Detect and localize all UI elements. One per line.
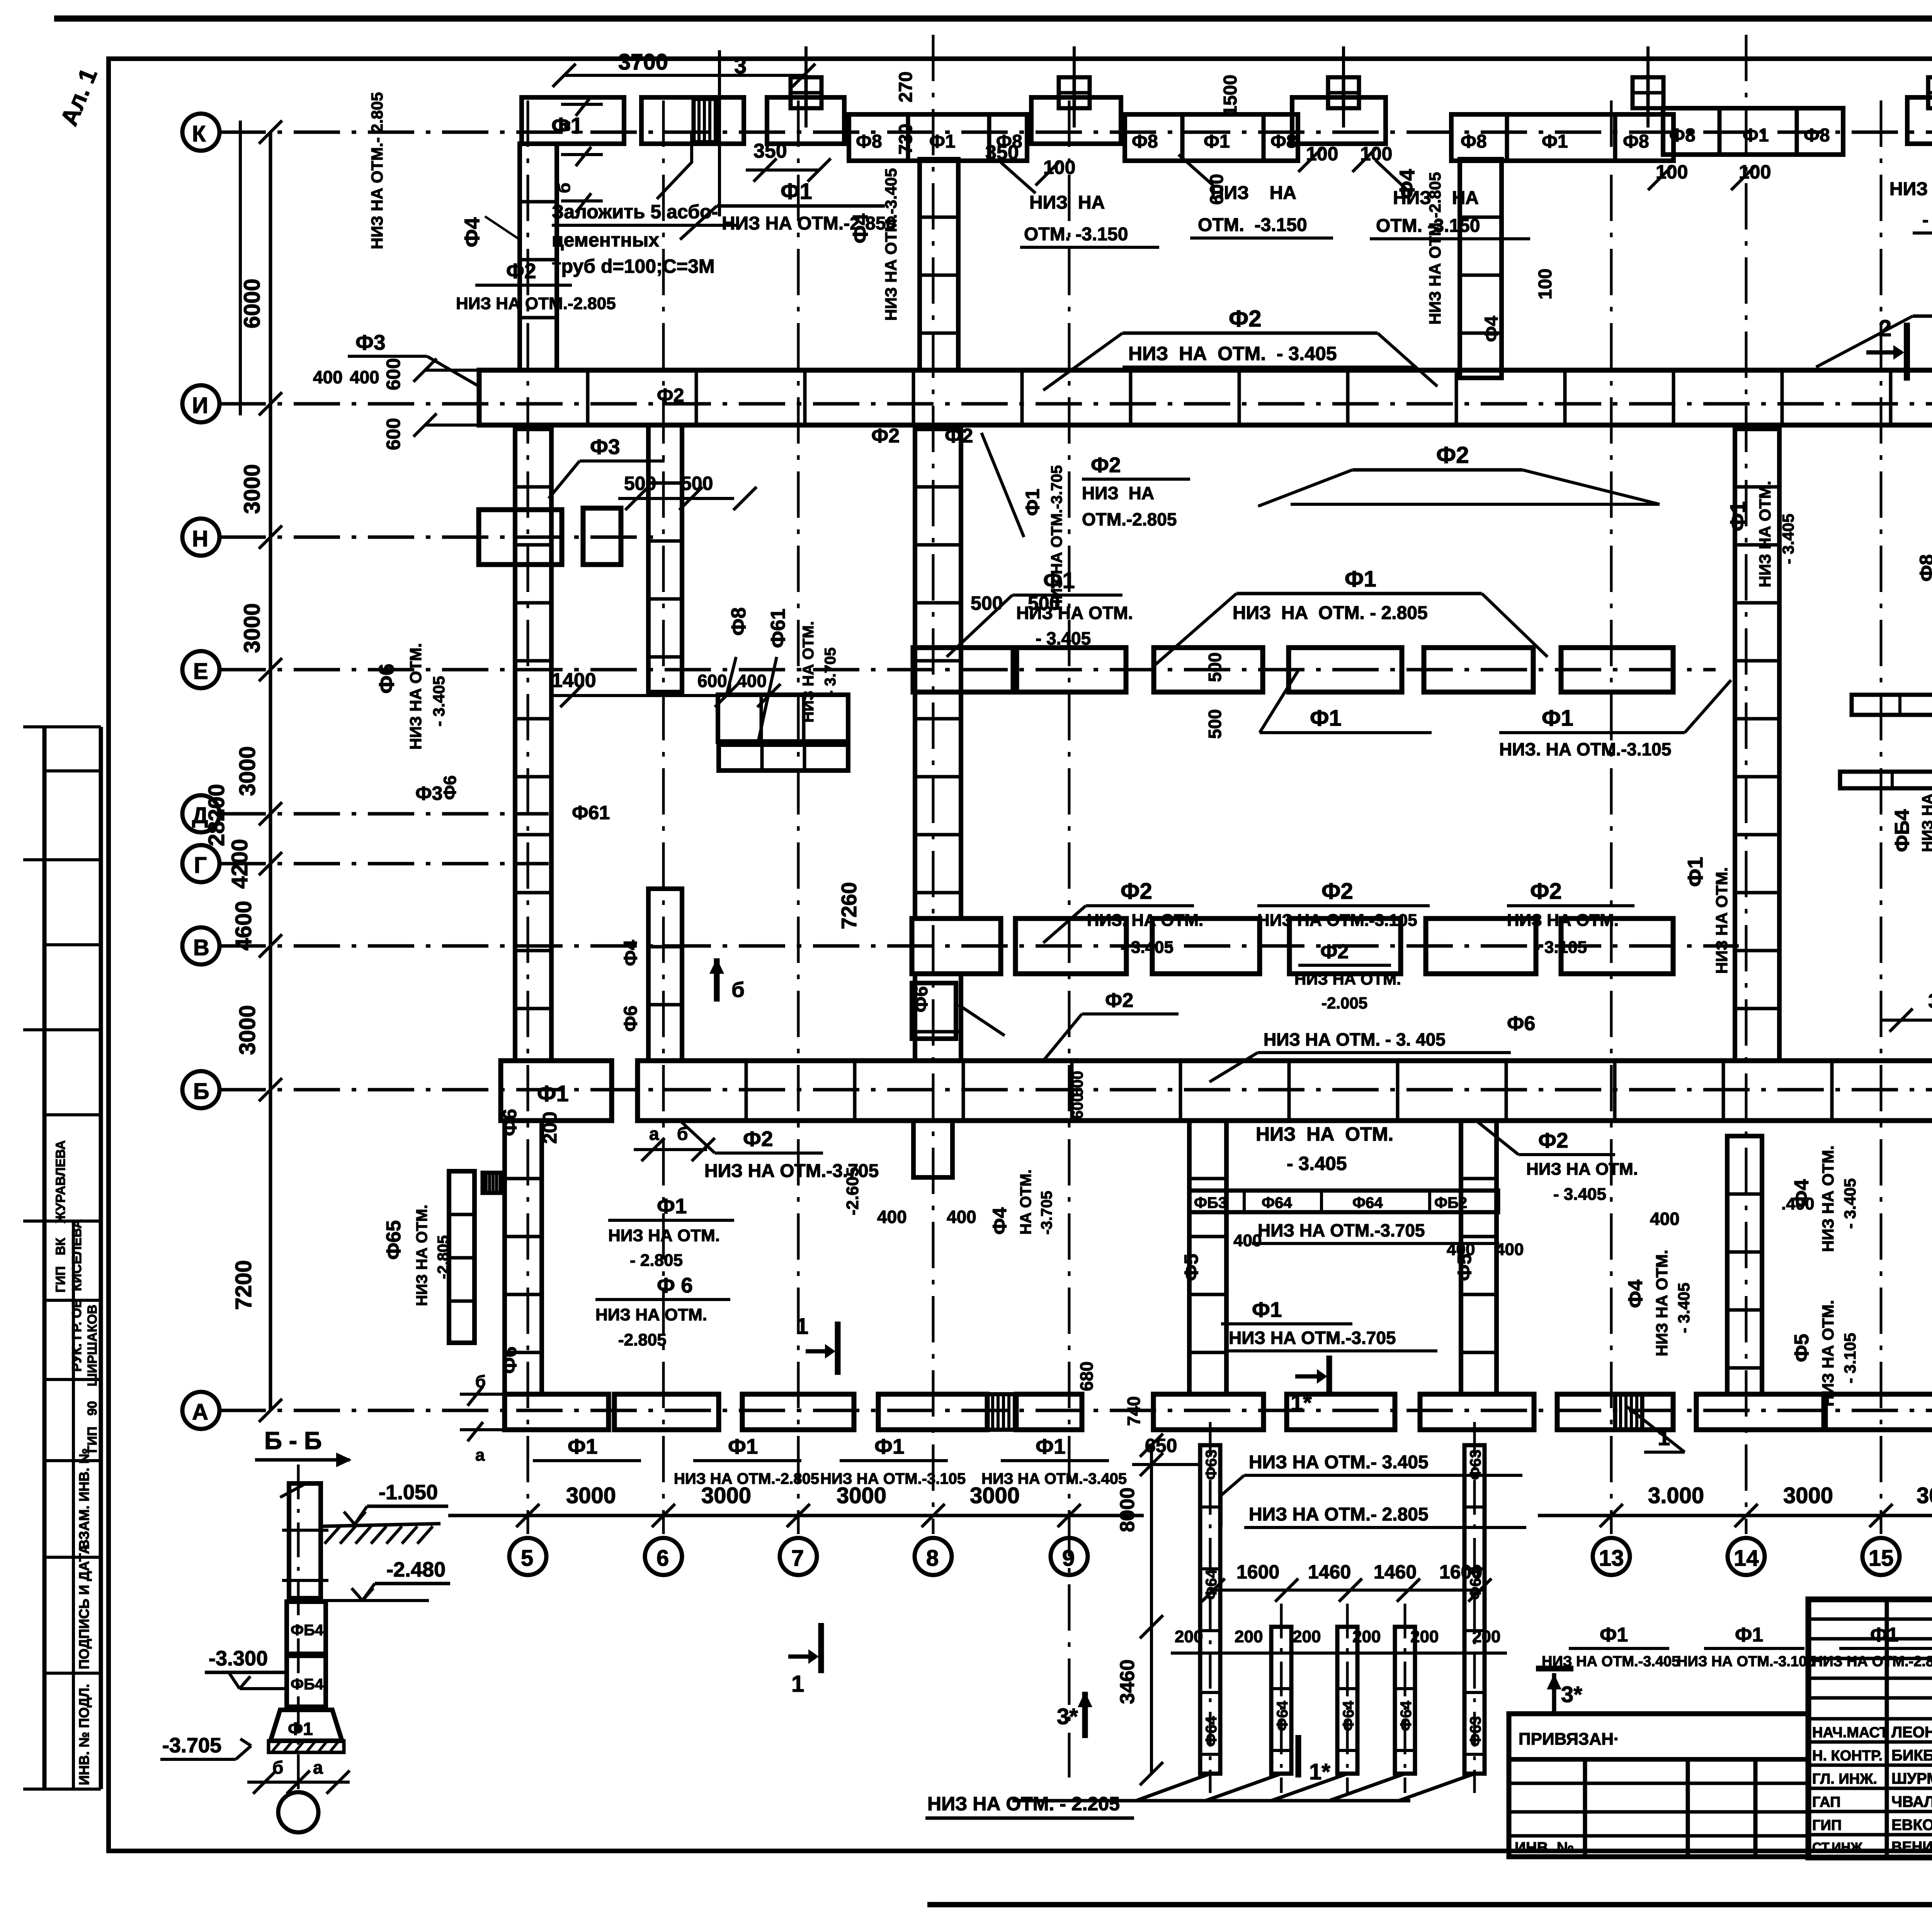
А-row footing Ф1	[1016, 1394, 1082, 1430]
bottom dimension line left group	[448, 1514, 1144, 1517]
svg-text:Ф6: Ф6	[911, 986, 932, 1012]
svg-text:НИЗ НА ОТМ.: НИЗ НА ОТМ.	[1756, 481, 1774, 587]
svg-text:Ф64: Ф64	[1262, 1194, 1292, 1211]
svg-text:270: 270	[896, 71, 916, 102]
svg-text:б: б	[555, 183, 574, 193]
left vertical dimension line	[269, 132, 272, 1410]
svg-text:НИЗ НА: НИЗ НА	[1082, 483, 1154, 503]
wall strip col8 below Б	[913, 1121, 952, 1177]
svg-text:ГИП ВК ЖУРАВЛЕВА: ГИП ВК ЖУРАВЛЕВА	[53, 1140, 68, 1293]
svg-text:ОТМ. -3.150: ОТМ. -3.150	[1198, 215, 1307, 235]
stamp bottom line	[23, 1788, 101, 1791]
wall strip col6 И-Е	[648, 425, 682, 692]
wall strip К-И right	[1460, 159, 1502, 378]
leader	[1378, 333, 1437, 386]
svg-text:- 3.405: - 3.405	[430, 676, 448, 726]
svg-text:Б: Б	[193, 1079, 209, 1104]
svg-text:ГЛ. ИНЖ.: ГЛ. ИНЖ.	[1812, 1771, 1877, 1787]
В-row footing Ф2	[912, 919, 1001, 974]
svg-text:Ф1: Ф1	[1726, 501, 1750, 531]
left stamp column inner line	[99, 727, 103, 1789]
Ф6 block mid	[912, 983, 956, 1039]
leader	[1155, 594, 1236, 665]
leader	[1043, 1014, 1082, 1061]
axis circle 8	[915, 1538, 952, 1575]
Б axis wall left footing Ф1	[501, 1061, 612, 1121]
pier Ф63-Ф64 column 3	[1337, 1627, 1357, 1774]
svg-text:Ф6: Ф6	[440, 776, 460, 800]
svg-text:Н: Н	[192, 526, 208, 551]
svg-text:- 3.405: - 3.405	[1121, 938, 1173, 957]
bottom dimension line right group	[1538, 1514, 1932, 1517]
svg-text:3000: 3000	[1917, 1483, 1932, 1508]
А-row footing Ф1	[742, 1394, 854, 1430]
stamp tick	[44, 769, 101, 772]
svg-text:Ф8: Ф8	[1461, 131, 1487, 152]
svg-text:Ф8: Ф8	[1132, 131, 1158, 152]
svg-text:-3.300: -3.300	[209, 1647, 268, 1670]
svg-text:Ф64: Ф64	[1340, 1701, 1357, 1731]
svg-text:600: 600	[1069, 1093, 1086, 1119]
axis circle 9	[1051, 1538, 1088, 1575]
stamp tick	[44, 1113, 101, 1116]
svg-text:100: 100	[1535, 269, 1556, 299]
svg-text:- 3.150: - 3.150	[1922, 210, 1932, 230]
axis circle И	[182, 385, 219, 422]
ПРИВЯЗАН grid verticals	[1585, 1759, 1755, 1857]
svg-text:-2.480: -2.480	[386, 1558, 446, 1581]
wall strip col5 К-И	[520, 144, 557, 370]
svg-text:Ф2: Ф2	[1436, 442, 1469, 468]
svg-text:Ф2: Ф2	[743, 1127, 773, 1151]
svg-text:НИЗ НА ОТМ.- 2.805: НИЗ НА ОТМ.- 2.805	[368, 92, 386, 249]
svg-text:Е: Е	[193, 659, 208, 684]
svg-text:Ф64: Ф64	[1467, 1569, 1484, 1600]
svg-text:Ф6: Ф6	[1507, 1012, 1535, 1035]
svg-text:Ф1: Ф1	[1743, 125, 1769, 146]
svg-text:6000: 6000	[240, 279, 265, 328]
svg-text:Ф2: Ф2	[945, 425, 973, 447]
Е-row footing Ф1	[913, 648, 1013, 692]
svg-text:НИЗ НА ОТМ.: НИЗ НА ОТМ.	[1507, 911, 1619, 930]
svg-text:а: а	[649, 1124, 659, 1144]
svg-text:- 3.105: - 3.105	[1534, 938, 1587, 957]
stamp tick	[23, 1028, 101, 1031]
ПРИВЯЗАН header row	[1509, 1757, 1808, 1762]
axis circle Д	[182, 795, 219, 832]
svg-text:ВЕНИНА: ВЕНИНА	[1891, 1839, 1932, 1855]
svg-text:500: 500	[1205, 709, 1225, 739]
svg-text:Ф64: Ф64	[1398, 1701, 1415, 1731]
pier Ф63-Ф64 column 5	[1464, 1445, 1485, 1774]
svg-text:ПОДПИСЬ И ДАТА: ПОДПИСЬ И ДАТА	[76, 1544, 92, 1669]
leader	[1627, 1407, 1685, 1452]
svg-text:НИЗ НА ОТМ.-3.705: НИЗ НА ОТМ.-3.705	[1258, 1220, 1425, 1240]
svg-text:3400: 3400	[1928, 990, 1932, 1012]
svg-text:Ф1: Ф1	[1600, 1624, 1628, 1646]
К-row footing	[1031, 97, 1121, 144]
svg-text:Ф1: Ф1	[1022, 489, 1043, 516]
svg-text:СТ.ИНЖ.: СТ.ИНЖ.	[1812, 1840, 1866, 1855]
svg-text:Ф8: Ф8	[1623, 131, 1649, 152]
svg-text:ИНВ. №: ИНВ. №	[1515, 1839, 1574, 1856]
svg-text:Ф3: Ф3	[355, 330, 386, 354]
svg-text:НИЗ НА ОТМ.-3.705: НИЗ НА ОТМ.-3.705	[1048, 465, 1065, 611]
svg-text:НИЗ НА ОТМ.- 2.805: НИЗ НА ОТМ.- 2.805	[1249, 1504, 1429, 1525]
svg-text:- 3.105: - 3.105	[1841, 1333, 1859, 1383]
svg-text:Ф1: Ф1	[728, 1434, 758, 1458]
svg-text:НИЗ. НА ОТМ.-3.105: НИЗ. НА ОТМ.-3.105	[1499, 739, 1671, 759]
svg-text:8000: 8000	[1116, 1487, 1139, 1532]
stamp cell line	[44, 1556, 101, 1559]
svg-text:а: а	[555, 122, 574, 131]
svg-text:НИЗ НА ОТМ.: НИЗ НА ОТМ.	[1713, 867, 1731, 974]
ПРИВЯЗАН grid horizontals	[1509, 1783, 1808, 1836]
left stamp column outer line	[43, 727, 47, 1789]
stamp tick	[23, 1220, 101, 1223]
leader	[1476, 1121, 1519, 1155]
stamp name row	[44, 1299, 101, 1302]
svg-text:НИЗ НА ОТМ.-3.405: НИЗ НА ОТМ.-3.405	[882, 168, 900, 321]
svg-text:3000: 3000	[240, 603, 265, 653]
svg-text:В: В	[193, 935, 209, 960]
svg-text:ОТМ.-2.805: ОТМ.-2.805	[1082, 509, 1177, 529]
svg-text:3: 3	[734, 53, 747, 78]
svg-text:Ф1: Ф1	[1542, 706, 1573, 731]
svg-text:НИЗ НА ОТМ.-2.805: НИЗ НА ОТМ.-2.805	[456, 294, 616, 313]
svg-text:а: а	[475, 1446, 485, 1465]
svg-text:НИЗ НА: НИЗ НА	[1029, 192, 1105, 213]
ФБ block row right upper	[1852, 695, 1932, 715]
svg-text:Ф1: Ф1	[1683, 857, 1707, 887]
svg-text:Ф63: Ф63	[1203, 1449, 1220, 1480]
svg-text:740: 740	[1124, 1396, 1144, 1426]
svg-text:Ф1: Ф1	[568, 1434, 598, 1458]
svg-text:-2.805: -2.805	[618, 1330, 667, 1349]
dimension 3700	[564, 74, 804, 77]
svg-text:ФБ2: ФБ2	[1434, 1194, 1467, 1211]
axis circle 6	[645, 1538, 682, 1575]
axis circle 13	[1593, 1538, 1630, 1575]
svg-text:ИНВ. № ПОДЛ.: ИНВ. № ПОДЛ.	[76, 1684, 92, 1785]
svg-text:Ф64: Ф64	[1274, 1701, 1291, 1731]
svg-text:-2.005: -2.005	[1321, 994, 1367, 1012]
svg-text:Ф1: Ф1	[1345, 566, 1376, 592]
svg-text:3*: 3*	[1057, 1704, 1078, 1729]
svg-text:Ф4: Ф4	[848, 213, 872, 243]
sheet outer bottom border	[927, 1902, 1932, 1907]
section axis dash line	[297, 1465, 300, 1793]
svg-text:7260: 7260	[837, 882, 861, 929]
wall strip col8 И-В	[915, 429, 961, 919]
svg-text:НИЗ НА ОТМ.-3.105: НИЗ НА ОТМ.-3.105	[1257, 911, 1417, 930]
svg-text:400: 400	[1233, 1231, 1262, 1250]
sheet outer top border	[54, 15, 1932, 22]
svg-text:Ф4: Ф4	[989, 1207, 1010, 1235]
svg-text:ШУРМУХИНА: ШУРМУХИНА	[1891, 1770, 1932, 1787]
svg-text:НИЗ НА ОТМ.: НИЗ НА ОТМ.	[1016, 603, 1133, 623]
svg-text:3000: 3000	[566, 1483, 616, 1508]
svg-text:Ф5: Ф5	[1454, 1254, 1475, 1281]
svg-text:НИЗ НА ОТМ.-3.105: НИЗ НА ОТМ.-3.105	[1677, 1653, 1815, 1670]
svg-text:5: 5	[521, 1546, 533, 1571]
Ф61 block row	[718, 695, 848, 742]
leader	[1522, 470, 1660, 504]
svg-text:4200: 4200	[227, 839, 252, 889]
К-row footing cluster Ф8-Ф1-Ф8	[849, 114, 1027, 161]
svg-text:ЧВАЛУН: ЧВАЛУН	[1891, 1793, 1932, 1810]
svg-text:3700: 3700	[618, 49, 668, 75]
svg-text:Ф1: Ф1	[537, 1081, 569, 1106]
left stamp top tick	[23, 725, 101, 728]
svg-text:б: б	[731, 978, 745, 1002]
svg-text:Ф8: Ф8	[1270, 131, 1297, 152]
title block upper thin rows	[1808, 1619, 1932, 1719]
К-row footing Ф1	[522, 97, 624, 144]
axis circle 15	[1862, 1538, 1900, 1575]
stamp cell line	[44, 1672, 101, 1675]
В-row footing Ф2	[1289, 919, 1401, 974]
svg-text:НАЧ.МАСТ: НАЧ.МАСТ	[1812, 1725, 1888, 1741]
svg-text:-1.050: -1.050	[379, 1481, 438, 1504]
svg-text:И: И	[192, 393, 208, 418]
svg-text:Ф3: Ф3	[590, 435, 620, 459]
svg-text:7200: 7200	[231, 1260, 256, 1310]
svg-text:1500: 1500	[1220, 75, 1241, 116]
stamp name row	[44, 1378, 101, 1381]
svg-text:НА ОТМ.: НА ОТМ.	[1017, 1169, 1034, 1235]
svg-text:Ф63: Ф63	[1467, 1716, 1484, 1747]
svg-text:ГИП: ГИП	[1812, 1817, 1842, 1834]
svg-text:НИЗ НА ОТМ. - 3. 405: НИЗ НА ОТМ. - 3. 405	[1264, 1029, 1446, 1050]
svg-text:Ф2: Ф2	[1229, 306, 1262, 332]
svg-text:Ф8: Ф8	[1804, 125, 1830, 146]
svg-text:труб d=100;С=3М: труб d=100;С=3М	[552, 255, 715, 277]
svg-text:-2.805: -2.805	[435, 1235, 452, 1279]
svg-text:Ф6: Ф6	[621, 1005, 641, 1032]
svg-text:Ф65: Ф65	[383, 1220, 405, 1260]
ground level line	[319, 1524, 440, 1526]
leader	[981, 433, 1024, 537]
section wall column	[289, 1483, 321, 1598]
wall strip col5 И-Б	[515, 429, 551, 1061]
svg-text:НИЗ НА ОТМ.-2.805: НИЗ НА ОТМ.-2.805	[1812, 1653, 1932, 1670]
svg-text:а: а	[313, 1757, 323, 1778]
leader	[680, 206, 717, 240]
Ф61 block row lower	[719, 745, 848, 771]
svg-text:БИКБАЕВА: БИКБАЕВА	[1891, 1747, 1932, 1764]
А-row footing Ф1	[1420, 1394, 1534, 1430]
svg-text:3000: 3000	[235, 746, 260, 796]
wall strip col8 В-Б	[915, 974, 961, 1061]
svg-text:Ф2: Ф2	[1105, 989, 1133, 1012]
svg-text:Ф2: Ф2	[1321, 879, 1353, 904]
svg-text:Ф1: Ф1	[1870, 1624, 1898, 1646]
stamp tick	[44, 943, 101, 946]
leader	[726, 657, 736, 696]
svg-text:НИЗ НА ОТМ.: НИЗ НА ОТМ.	[800, 621, 817, 723]
svg-text:РУК. ГР. ОВ КИСЕЛЕВА: РУК. ГР. ОВ КИСЕЛЕВА	[70, 1219, 84, 1372]
svg-text:Ф8: Ф8	[1669, 125, 1696, 146]
svg-text:200: 200	[1175, 1627, 1203, 1646]
svg-text:600: 600	[383, 358, 404, 390]
svg-text:ФБ4: ФБ4	[1891, 809, 1913, 852]
svg-text:- 3.405: - 3.405	[1553, 1185, 1606, 1204]
К-row footing	[1292, 97, 1386, 144]
svg-text:ЕВКО: ЕВКО	[1891, 1817, 1932, 1834]
leader	[947, 595, 1012, 657]
svg-text:цементных: цементных	[552, 229, 659, 251]
svg-text:200: 200	[1235, 1627, 1263, 1646]
svg-text:НИЗ НА ОТМ.: НИЗ НА ОТМ.	[413, 1204, 430, 1306]
footing base hatched strip	[269, 1741, 344, 1752]
hatched pier block col8	[987, 1394, 1016, 1430]
footing Ф1 trapezoid	[270, 1710, 342, 1741]
svg-text:НИЗ НА ОТМ.: НИЗ НА ОТМ.	[1819, 1300, 1837, 1407]
leader	[1221, 1475, 1244, 1526]
svg-text:1: 1	[791, 1671, 804, 1697]
svg-text:б: б	[677, 1124, 688, 1144]
Б axis strip foundation wall	[638, 1061, 1932, 1121]
section title arrow line	[255, 1458, 350, 1462]
wall strip col5 Б-А	[505, 1121, 542, 1394]
crossed square marker	[1328, 77, 1359, 108]
svg-text:13: 13	[1599, 1546, 1624, 1571]
wall strip col8 К-И	[920, 159, 958, 370]
pier leader lines	[1136, 1774, 1475, 1801]
svg-text:1600: 1600	[1236, 1561, 1279, 1583]
svg-text:Ф2: Ф2	[1530, 879, 1562, 904]
section empty axis circle	[278, 1792, 318, 1832]
axis circle В	[182, 927, 219, 964]
А-row footing Ф1	[1287, 1394, 1395, 1430]
title block signer rows	[1808, 1742, 1932, 1835]
svg-text:Ф4: Ф4	[621, 940, 641, 966]
svg-text:600: 600	[383, 418, 404, 450]
svg-text:1*: 1*	[1291, 1390, 1312, 1415]
leader	[1258, 470, 1352, 506]
svg-text:ФБ3: ФБ3	[1194, 1194, 1227, 1211]
svg-text:3000: 3000	[235, 1005, 260, 1055]
svg-text:Б - Б: Б - Б	[264, 1427, 322, 1454]
svg-text:НИЗ НА ОТМ.- 3.405: НИЗ НА ОТМ.- 3.405	[1249, 1452, 1429, 1473]
secondary vertical dim line К-И	[239, 121, 242, 415]
hatched block near Ф65	[483, 1173, 501, 1193]
leader	[757, 657, 777, 746]
wall strip col9 Б-А	[1189, 1121, 1226, 1394]
wall break marks	[280, 1484, 328, 1580]
svg-text:Ф6: Ф6	[374, 663, 398, 694]
svg-text:Ф2: Ф2	[871, 425, 900, 447]
svg-text:7: 7	[791, 1546, 804, 1571]
leader	[427, 356, 479, 386]
svg-text:Н. КОНТР.: Н. КОНТР.	[1812, 1748, 1883, 1764]
leader	[1043, 906, 1086, 943]
hatched insert block	[694, 99, 718, 142]
svg-text:6: 6	[656, 1546, 669, 1571]
svg-text:1400: 1400	[551, 669, 596, 692]
svg-text:НИЗ НА ОТМ.: НИЗ НА ОТМ.	[608, 1226, 720, 1245]
svg-text:Ф1: Ф1	[874, 1434, 905, 1458]
svg-text:НИЗ НА ОТМ. - 3.405: НИЗ НА ОТМ. - 3.405	[1128, 343, 1337, 364]
svg-text:Ф4: Ф4	[1395, 169, 1419, 199]
col5 leader	[485, 216, 520, 240]
svg-text:Ф5: Ф5	[1180, 1254, 1202, 1281]
svg-text:НИЗ НА ОТМ.: НИЗ НА ОТМ.	[1653, 1250, 1671, 1356]
svg-text:ВЗАМ. ИНВ. №: ВЗАМ. ИНВ. №	[76, 1448, 92, 1550]
svg-text:НИЗ НА ОТМ.-2.805: НИЗ НА ОТМ.-2.805	[674, 1470, 819, 1487]
svg-text:Ф1: Ф1	[1036, 1434, 1066, 1458]
svg-text:500: 500	[971, 592, 1003, 614]
svg-text:Ф2: Ф2	[1320, 941, 1349, 963]
leader	[549, 461, 580, 498]
svg-text:Ф64: Ф64	[1203, 1716, 1220, 1747]
svg-text:Ф2: Ф2	[1091, 453, 1121, 477]
svg-text:Ф8: Ф8	[856, 131, 882, 152]
А-row footing Ф1	[878, 1394, 987, 1430]
svg-text:НИЗ НА ОТМ.: НИЗ НА ОТМ.	[406, 643, 425, 750]
svg-text:Ф1: Ф1	[288, 1719, 313, 1739]
crossed square marker	[1059, 77, 1090, 108]
svg-text:.400: .400	[1781, 1194, 1815, 1213]
column axis lines dash-dot	[528, 35, 1932, 1778]
svg-text:Ф1: Ф1	[1310, 706, 1342, 731]
svg-text:Ф1: Ф1	[781, 179, 812, 204]
svg-text:3.000: 3.000	[1648, 1483, 1704, 1508]
axis circle А	[182, 1392, 219, 1429]
svg-text:НИЗ. НА ОТМ.: НИЗ. НА ОТМ.	[1087, 911, 1203, 930]
К-row footing cluster Ф8-Ф1 long	[1451, 114, 1673, 161]
svg-text:1460: 1460	[1308, 1561, 1351, 1583]
svg-text:ГИП 90 ШИРШАКОВ: ГИП 90 ШИРШАКОВ	[85, 1305, 100, 1453]
svg-text:ОТМ. -3.150: ОТМ. -3.150	[1024, 224, 1128, 245]
pier Ф63-Ф64 column 4	[1395, 1627, 1415, 1774]
svg-text:Ф8: Ф8	[1916, 555, 1932, 582]
svg-text:3000: 3000	[1783, 1483, 1833, 1508]
svg-text:- 2.805: - 2.805	[630, 1251, 683, 1270]
leader	[1260, 670, 1298, 733]
svg-text:3460: 3460	[1116, 1659, 1139, 1704]
Н-row footing Ф3	[583, 508, 621, 565]
svg-text:Ф1: Ф1	[1204, 131, 1230, 152]
Н-row footing	[479, 510, 562, 565]
svg-text:- 3.405: - 3.405	[1779, 514, 1797, 564]
svg-text:200: 200	[1293, 1627, 1321, 1646]
svg-text:28200: 28200	[204, 784, 229, 846]
block ФБ4 lower	[287, 1656, 326, 1707]
svg-text:НИЗ НА ОТМ.-3.105: НИЗ НА ОТМ.-3.105	[820, 1470, 966, 1487]
svg-text:Ф8: Ф8	[728, 607, 750, 636]
Е-row footing Ф1	[1561, 648, 1673, 692]
leader	[1179, 155, 1213, 185]
leader	[1291, 503, 1660, 506]
svg-text:350: 350	[753, 140, 787, 162]
svg-text:НИЗ НА ОТМ.: НИЗ НА ОТМ.	[1889, 179, 1932, 199]
svg-text:Ф6: Ф6	[499, 1347, 520, 1374]
axis circle 5	[509, 1538, 546, 1575]
axis circle 14	[1728, 1538, 1765, 1575]
crossed square marker	[1928, 77, 1932, 108]
svg-text:ГАП: ГАП	[1812, 1794, 1840, 1810]
svg-text:К: К	[192, 121, 206, 146]
svg-text:400: 400	[1495, 1240, 1524, 1259]
hatched pier block col13	[1615, 1394, 1642, 1430]
ground hatch	[325, 1526, 433, 1544]
ФБ block row right lower	[1840, 772, 1932, 788]
А-row footing Ф1	[1696, 1394, 1824, 1430]
svg-text:НИЗ НА ОТМ.-3.705: НИЗ НА ОТМ.-3.705	[1229, 1328, 1396, 1348]
svg-text:600: 600	[1069, 1071, 1086, 1097]
